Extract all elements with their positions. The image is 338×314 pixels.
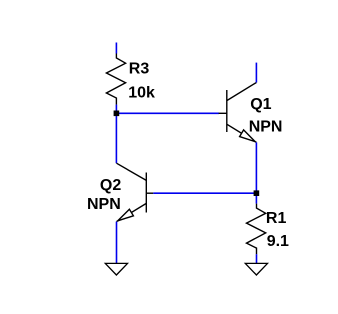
transistor Q2 (NPN, mirrored) xyxy=(117,163,154,221)
node: junction at R3 bottom xyxy=(114,111,120,117)
wire: Q2 base to junction xyxy=(153,192,256,194)
svg-text:NPN: NPN xyxy=(87,196,121,213)
svg-text:Q1: Q1 xyxy=(250,96,271,113)
wire: R1 bottom to ground xyxy=(256,254,258,263)
svg-text:R1: R1 xyxy=(266,210,287,227)
resistor R3 xyxy=(106,54,125,105)
wire: Q2 emitter down to ground xyxy=(116,222,118,264)
wire: R3 bottom down to Q2 collector xyxy=(115,105,117,164)
wire: Q1 collector up xyxy=(255,63,257,83)
ground (right) xyxy=(245,263,267,275)
node: junction at Q1 emitter / Q2 base / R1 xyxy=(254,190,260,196)
wire: junction to Q1 base xyxy=(116,112,219,114)
wire: top lead above R3 xyxy=(115,43,117,54)
svg-text:10k: 10k xyxy=(128,85,155,102)
ground (left) xyxy=(105,263,127,275)
wire: Q1 emitter down to R1 top xyxy=(255,142,257,203)
svg-text:9.1: 9.1 xyxy=(267,233,289,250)
svg-text:Q2: Q2 xyxy=(100,177,121,194)
svg-text:NPN: NPN xyxy=(249,119,283,136)
transistor Q1 (NPN) xyxy=(219,83,257,143)
resistor R1 xyxy=(247,204,266,255)
svg-text:R3: R3 xyxy=(129,60,150,77)
